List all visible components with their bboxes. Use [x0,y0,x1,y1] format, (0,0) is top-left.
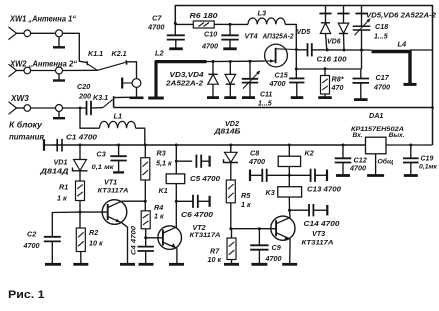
wire base line to VT3 [231,228,276,230]
relay coil K2 [278,156,300,166]
svg-text:C18: C18 [375,22,388,31]
capacitor C9 [258,229,260,246]
svg-text:4700: 4700 [248,157,265,166]
resistor R4 [141,211,150,229]
node C6 junction [175,200,178,203]
node C8/C13 junction [288,174,291,177]
wire R8/C17 line [296,68,361,70]
wire R4 to VT2 base [145,229,147,238]
svg-text:L2: L2 [155,49,165,58]
svg-text:C2: C2 [27,230,36,239]
svg-text:470: 470 [331,83,344,92]
ground of C15 [291,96,304,99]
svg-text:1 к: 1 к [154,211,164,220]
svg-text:0,1мк: 0,1мк [419,164,438,171]
wire XW1 to K1.1 [63,33,87,62]
wire K3 to VT3 collector [288,197,290,210]
svg-text:10 к: 10 к [208,255,222,264]
svg-text:C3: C3 [97,150,106,159]
ground of R7 [224,263,239,266]
relay contact K1.1 [86,61,89,65]
ground of VT1 emitter [120,263,135,266]
svg-text:VT3: VT3 [312,229,325,238]
wire XW3 to C20 [63,107,87,109]
feedthrough capacitor on XW3 line [56,105,63,112]
svg-text:C11: C11 [260,91,272,98]
svg-text:C1 4700: C1 4700 [66,132,98,141]
wire VT1 emitter to ground [122,223,128,263]
svg-text:VD5: VD5 [297,29,311,36]
capacitor C14 [290,209,309,211]
wire output line y50 [328,49,372,51]
svg-text:VD5,VD6 2А522А-2: VD5,VD6 2А522А-2 [366,12,436,19]
node C3 junction [117,144,120,147]
wire R7 to ground [231,260,233,264]
ground of C7 [169,47,183,50]
capacitor C20 [86,101,88,115]
svg-text:XW3: XW3 [10,94,29,103]
wire K2 to node [288,167,290,176]
wire R1 to node [79,201,81,213]
svg-text:4700: 4700 [265,254,282,263]
zener diode VD2 Д814Б [230,145,232,152]
relay contact K3.1 [103,100,113,108]
relay contact K2.1 [98,62,126,70]
wire node to C2 [52,212,80,237]
node VD2 junction [229,144,232,147]
node XW3 / L1 junction [79,107,82,110]
resistor R2 [76,228,85,252]
ground of C17 [354,98,368,101]
wire VT1 collector [122,200,146,202]
svg-text:VT1: VT1 [104,178,117,187]
transistor VT1 КТ3117А [102,200,127,225]
wire DA1 output [386,144,433,146]
svg-text:R2: R2 [89,228,98,237]
wire VT2 emitter to ground [176,248,178,263]
ground of VD3 [207,96,219,99]
capacitor C13 [289,174,310,176]
svg-text:C5 4700: C5 4700 [190,174,220,183]
wire rail to K1 [175,145,177,174]
svg-text:C19: C19 [421,156,434,163]
node C7/R6 junction [174,22,177,25]
ground of C2 [45,263,61,266]
wire R1 node to R2 [79,212,81,228]
svg-text:R1: R1 [59,183,68,192]
relay coil K3 [288,175,290,186]
ground of C19 [404,174,418,177]
svg-text:L3: L3 [258,9,268,18]
svg-text:1...5: 1...5 [374,33,388,40]
capacitor C6 [176,200,192,202]
capacitor C19 [410,145,412,158]
wire R6 to C10 node [214,23,230,25]
svg-text:K3.1: K3.1 [93,93,108,102]
ground of DA1 common [367,174,384,177]
svg-text:R5: R5 [241,191,251,200]
inductor L3 [230,23,248,25]
svg-text:VD3,VD4: VD3,VD4 [170,72,204,79]
svg-text:КТ3117А: КТ3117А [302,239,334,246]
ground of C11 [242,96,255,99]
wire drain node down [295,50,297,70]
capacitor C15 [295,69,297,78]
svg-text:КТ3117А: КТ3117А [190,232,221,239]
feedthrough capacitor on XW2 line [56,67,63,74]
svg-text:C17: C17 [376,73,390,82]
svg-text:R3: R3 [157,149,166,158]
svg-text:4700: 4700 [147,23,165,32]
node VT4 drain junction [295,48,298,51]
connector XW2 Антенна 2 [9,64,17,77]
coax jack X1 [132,79,141,88]
node K1 top junction [175,144,178,147]
svg-text:4700: 4700 [373,83,390,92]
wire K3.1 to jack ground [114,96,137,98]
svg-text:K2.1: K2.1 [112,49,127,58]
diode VD4 [229,60,232,63]
wire tank line [207,60,265,63]
node R8 junction [324,67,327,70]
transistor VT4 АП325А-2 [265,44,288,67]
wire R2 to ground [80,252,82,264]
svg-text:4700: 4700 [201,42,218,51]
svg-text:1 к: 1 к [241,200,251,209]
wire R3 to R4 [144,180,146,211]
svg-text:Вх.: Вх. [353,132,363,139]
svg-text:200: 200 [78,91,91,100]
svg-text:C14 4700: C14 4700 [304,219,340,228]
inductor L2 strip [156,62,207,97]
svg-text:K1.1: K1.1 [88,49,103,58]
ground of R2 [73,263,88,266]
wire C18 node to C17 line [361,50,363,69]
svg-text:C13 4700: C13 4700 [307,185,341,194]
svg-text:1...5: 1...5 [258,101,272,108]
node VD5 junction [326,48,329,51]
svg-text:АП325А-2: АП325А-2 [262,32,294,41]
svg-text:0,1 мк: 0,1 мк [92,164,115,171]
resistor R6 [175,23,193,25]
wire XW2 to switch arms [63,69,98,71]
connector XW3 К блоку питания [9,102,17,115]
node VT1 base junction [79,211,82,214]
capacitor C3 [118,145,120,156]
wire R8 to ground [324,94,326,97]
diode VD6 [343,49,346,52]
svg-text:VT4: VT4 [245,32,258,41]
node R5/R7 junction [229,227,232,230]
svg-text:Рис. 1: Рис. 1 [8,289,45,301]
node C19 junction [409,144,412,147]
diode VD5 [325,6,327,14]
variable capacitor C11 [249,60,252,63]
wire jack to ground [136,87,138,96]
resistor R5 [226,180,235,203]
wire DA1 common to ground [375,154,377,175]
svg-text:R8*: R8* [332,74,345,83]
ground of jack line [130,97,144,100]
svg-text:10 к: 10 к [89,239,103,248]
transistor VT3 КТ3117А [271,216,295,240]
capacitor C10 [229,24,231,35]
node R3 / L1 junction [144,144,147,147]
svg-text:питания: питания [9,132,44,142]
svg-text:Вых.: Вых. [389,132,405,139]
capacitor C4 [145,238,147,247]
capacitor C7 [174,23,176,35]
wire top supply rail [175,6,432,146]
svg-text:5,1 к: 5,1 к [156,158,172,167]
svg-text:4700: 4700 [269,79,286,88]
capacitor C12 [342,145,344,158]
svg-text:1 к: 1 к [57,194,67,203]
svg-text:C20: C20 [77,82,90,91]
capacitor C5 [176,160,192,162]
svg-text:Д814Б: Д814Б [213,126,240,135]
node C9 junction [258,227,261,230]
svg-text:C10: C10 [204,29,217,38]
diode VD3 [212,60,215,63]
wire VT3 collector [289,210,292,217]
node VT1 collector junction [144,200,147,203]
capacitor C17 [360,69,362,79]
node C5 junction [175,160,178,163]
wire L4 to supply border [410,49,433,51]
inductor L1 [80,108,100,128]
svg-text:К блоку: К блоку [9,120,42,130]
ground of C4 [139,263,154,266]
node C14 junction [288,209,291,212]
svg-text:КТ3117А: КТ3117А [98,187,129,194]
svg-text:Общ: Общ [378,158,394,166]
svg-text:VD6: VD6 [327,38,341,45]
svg-text:Д814Д: Д814Д [39,166,68,175]
ground of C10 [223,47,237,50]
svg-text:C9: C9 [272,243,281,252]
svg-text:XW1 „Антенна 1“: XW1 „Антенна 1“ [9,14,76,24]
ground of C9 [251,263,267,266]
wire K2.1 to coax jack [127,62,137,79]
capacitor C8 [249,170,251,182]
feedthrough capacitor on XW1 line [56,30,63,37]
wire C20 to K3.1 [91,107,103,109]
resistor R1 [76,181,85,201]
ground of C12 [336,174,350,177]
wire VT3 emitter to ground [289,239,291,263]
svg-text:L1: L1 [114,112,123,121]
zener diode VD1 Д814Д [79,145,81,160]
svg-text:4700: 4700 [349,163,366,172]
ground of VT3 emitter [282,263,297,266]
node rail-corner junction [431,106,434,109]
node C12 junction [342,144,345,147]
node VD1 junction [79,144,82,147]
node C15 junction [295,68,298,71]
resistor R3 [144,145,146,158]
capacitor C1 with input terminal [43,139,45,151]
ground of L2 [148,97,164,100]
resistor R8 [324,69,326,76]
transistor VT2 КТ3117А [158,226,182,250]
capacitor C16 [296,49,307,51]
resistor R7 [231,229,233,238]
variable capacitor C18 [360,49,363,52]
node VT2 base junction [144,236,147,239]
svg-text:C4 4700: C4 4700 [130,226,137,255]
svg-text:K1: K1 [159,186,168,195]
svg-text:4700: 4700 [23,241,40,250]
ground of R8 [318,96,332,99]
svg-text:VT2: VT2 [193,223,206,232]
svg-text:C6 4700: C6 4700 [181,210,213,219]
svg-text:VD1: VD1 [54,157,68,166]
wire K1 to VT2 collector [175,184,177,227]
relay coil K1 [166,174,185,184]
node C10/L3 junction [229,23,232,26]
svg-text:C16 100: C16 100 [317,57,347,64]
node K2 junction [288,144,291,147]
svg-text:2А522А-2: 2А522А-2 [165,80,203,87]
capacitor C2 [44,236,61,238]
voltage regulator DA1 КР1157ЕН502А [366,137,387,154]
svg-text:K2: K2 [305,148,314,157]
svg-text:K3: K3 [266,188,275,197]
wire R5 to VT3 base line [230,203,232,229]
svg-text:L4: L4 [398,40,407,49]
wire mid distribution rail [114,107,433,109]
connector XW1 Антенна 1 [9,27,17,40]
wire main middle rail [53,144,366,146]
ground of VT2 emitter [169,263,184,266]
ground of L4 [404,83,417,86]
wire rail to K2 [288,145,290,156]
svg-text:R6 180: R6 180 [190,11,218,20]
svg-text:XW2 „Антенна 2“: XW2 „Антенна 2“ [9,58,78,68]
svg-text:C7: C7 [152,13,162,22]
wire node to VT1 base [80,211,108,213]
inductor L4 strip [372,52,411,84]
svg-text:DA1: DA1 [369,111,383,120]
